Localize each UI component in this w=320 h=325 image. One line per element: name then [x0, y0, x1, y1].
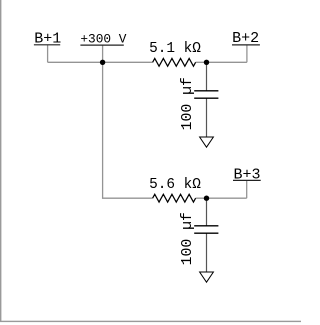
svg-text:B+3: B+3 — [233, 166, 260, 183]
svg-text:100 µf: 100 µf — [180, 77, 196, 130]
svg-text:5.6 kΩ: 5.6 kΩ — [149, 177, 201, 193]
svg-text:+300 V: +300 V — [80, 31, 126, 46]
svg-text:100 µf: 100 µf — [180, 212, 196, 265]
svg-text:5.1 kΩ: 5.1 kΩ — [149, 41, 201, 57]
svg-text:B+1: B+1 — [34, 30, 61, 47]
svg-text:B+2: B+2 — [232, 30, 259, 47]
